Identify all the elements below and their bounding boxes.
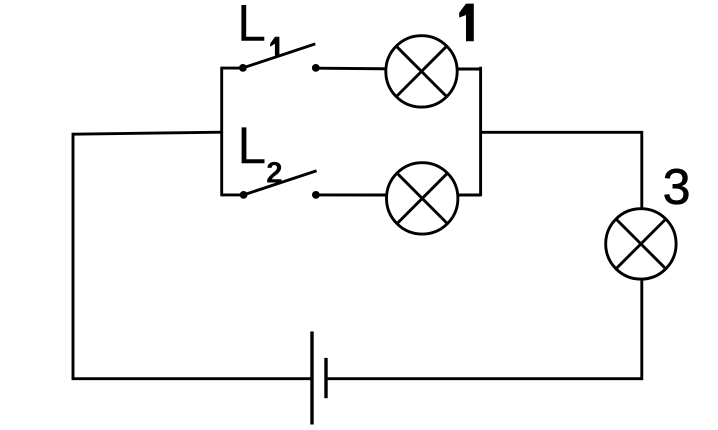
wire switch L1 to lamp 1: [316, 67, 387, 71]
label L2 subscript 2: [267, 162, 281, 183]
lamp 3 circle: [606, 209, 676, 279]
switch L2 blade: [244, 171, 317, 195]
battery B1 long plate (+): [310, 332, 313, 425]
wire stub bus to switch L2: [222, 193, 244, 196]
switch L1 contact dot right: [312, 64, 320, 72]
label L2: [242, 127, 265, 163]
lamp 3 cross: [616, 219, 666, 269]
lamp 1 circle: [386, 36, 457, 107]
wire left bus vertical: [220, 67, 223, 197]
wire left vertical: [72, 133, 75, 379]
lamp 2 cross: [397, 173, 447, 223]
label lamp 3: [665, 169, 689, 204]
switch L2 contact dot right: [312, 191, 320, 199]
wire bottom left (to battery): [72, 377, 311, 380]
lamp 2 circle: [387, 163, 458, 234]
switch L1 contact dot left: [239, 64, 247, 72]
wire lamp 1 to right bus: [457, 68, 481, 71]
lamp 1 cross: [396, 46, 446, 96]
wire lamp 2 to right bus: [457, 194, 480, 197]
wire feed left to bus: [73, 132, 222, 134]
label L1 subscript 1: [270, 37, 279, 56]
wire bottom right (battery to right corner): [326, 377, 642, 380]
switch L2 contact dot left: [240, 191, 248, 199]
battery B1 short plate (-): [324, 358, 327, 398]
wire right vertical upper (to lamp 3): [640, 131, 643, 210]
wire right bus vertical: [479, 67, 482, 197]
label lamp 1: [459, 4, 474, 42]
wire output bus to right: [481, 131, 642, 134]
wire switch L2 to lamp 2: [316, 193, 387, 196]
switch L1 blade: [243, 44, 315, 68]
wire right vertical lower (lamp 3 to bottom): [640, 279, 643, 381]
wire stub bus to switch L1: [222, 67, 243, 70]
label L1: [241, 5, 264, 41]
